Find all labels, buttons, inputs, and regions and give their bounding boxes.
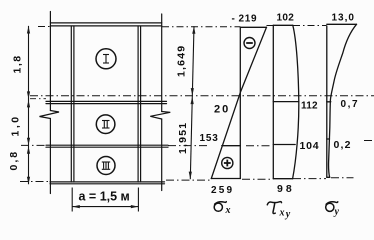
left dimension extension ticks	[30, 98, 46, 100]
sigma-y top edge	[327, 23, 357, 25]
sigma-x stress diagonal	[211, 27, 266, 178]
right dimension line	[189, 26, 196, 179]
top flange double line	[50, 22, 161, 24]
svg-text:98: 98	[277, 183, 295, 195]
svg-text:a = 1,5 м: a = 1,5 м	[79, 190, 130, 204]
svg-text:112: 112	[301, 101, 318, 112]
I/II centerline dash-dot (full width)	[30, 95, 374, 97]
bottom-left dash-dot	[20, 181, 50, 183]
slab left edge (upper part)	[49, 12, 51, 111]
tau top edge	[273, 24, 293, 26]
zone circle I	[96, 49, 116, 69]
svg-text:0,7: 0,7	[341, 99, 360, 110]
svg-text:259: 259	[211, 185, 234, 196]
slab left edge (lower part)	[49, 119, 51, 194]
plus sign circle	[222, 157, 233, 168]
sigma-y diagram	[327, 24, 357, 177]
svg-text:0,2: 0,2	[334, 139, 352, 151]
label sigma-y	[326, 202, 338, 212]
sigma-x bottom edge	[211, 178, 240, 180]
sigma-x tick at II/III	[222, 145, 241, 147]
svg-text:1,951: 1,951	[177, 122, 189, 154]
sigma-y tick at I/II	[327, 101, 331, 103]
svg-text:219: 219	[239, 14, 258, 25]
II/III centerline dash-dot segments	[21, 144, 272, 146]
sigma-x top edge	[240, 26, 266, 28]
tau tick at I/II	[273, 101, 299, 103]
sigma-x diagram	[211, 27, 266, 179]
sigma-y stress curve	[329, 24, 357, 177]
label tau-xy	[267, 202, 281, 214]
sigma-y bottom edge	[327, 176, 330, 178]
svg-text:x: x	[279, 208, 285, 219]
svg-text:104: 104	[300, 140, 320, 152]
svg-text:0,8: 0,8	[8, 150, 20, 171]
svg-text:102: 102	[277, 13, 295, 24]
zone circle II	[96, 115, 115, 134]
sigma-x zero axis	[239, 27, 241, 179]
sigma-y zero axis	[326, 26, 328, 177]
svg-text:20: 20	[214, 104, 230, 116]
zone I/II boundary double line	[46, 100, 167, 102]
slab right edge (upper part)	[161, 14, 163, 112]
tau bottom edge	[273, 178, 292, 180]
tau right curved edge	[293, 25, 299, 178]
rib 1 double line	[70, 26, 72, 182]
bottom baseline dash-dot	[166, 178, 354, 180]
slab right edge (lower part)	[161, 119, 163, 191]
tau tick at II/III	[273, 144, 295, 146]
bottom flange double line	[50, 181, 165, 183]
minus sign circle	[244, 38, 255, 49]
zone II/III boundary double line	[46, 144, 168, 146]
rib 2 double line	[137, 26, 139, 182]
svg-text:y: y	[285, 209, 291, 220]
svg-text:x: x	[225, 205, 231, 216]
svg-text:1,8: 1,8	[12, 54, 24, 73]
top dash-dot between diagrams	[267, 25, 327, 27]
left break mark	[40, 111, 60, 119]
II/III dash far right	[364, 140, 374, 142]
right break mark	[150, 112, 170, 120]
sigma-y tick at II/III	[327, 138, 330, 140]
tau-xy diagram	[273, 25, 299, 178]
label sigma-x	[214, 202, 226, 212]
svg-text:13,0: 13,0	[332, 13, 355, 24]
top centerline dash-dot	[38, 26, 240, 28]
left dimension line	[27, 26, 30, 184]
svg-text:1,0: 1,0	[10, 114, 22, 136]
bottom dimension a = 1,5 m	[72, 188, 138, 212]
svg-text:y: y	[334, 207, 340, 218]
tau left edge	[272, 25, 274, 178]
svg-text:-: -	[232, 14, 235, 25]
svg-text:1,649: 1,649	[176, 45, 188, 77]
zone circle III	[97, 157, 115, 175]
svg-text:153: 153	[200, 133, 219, 144]
